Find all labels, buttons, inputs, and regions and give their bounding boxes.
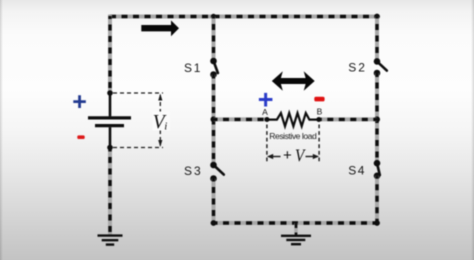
wire bottom rail bbox=[212, 221, 380, 225]
wire ground stem (middle) bbox=[294, 223, 297, 235]
+V left arrow bbox=[267, 154, 281, 159]
svg-text:+: + bbox=[283, 147, 292, 164]
svg-text:S: S bbox=[348, 164, 356, 178]
load measurement dashed bracket left bbox=[266, 125, 268, 162]
wire right bridge rail below S4 bbox=[375, 176, 379, 223]
wire battery bottom to ground bbox=[108, 148, 112, 236]
switch S1 bbox=[210, 58, 218, 78]
wire right bridge rail above S2 bbox=[375, 17, 379, 62]
node A bbox=[265, 117, 270, 122]
svg-text:+: + bbox=[258, 85, 274, 115]
svg-text:S: S bbox=[348, 61, 356, 75]
node battery bottom bbox=[107, 145, 113, 151]
svg-text:i: i bbox=[164, 121, 167, 133]
svg-text:3: 3 bbox=[194, 164, 201, 178]
Vi measurement dashed lines bbox=[113, 93, 163, 148]
node bottom-right corner bbox=[374, 220, 380, 226]
switch S2 bbox=[374, 58, 387, 76]
load minus label bbox=[314, 97, 324, 102]
+V right arrow bbox=[306, 154, 320, 159]
node top rail junction at S1 branch bbox=[211, 14, 216, 19]
ground (middle) bbox=[281, 236, 311, 244]
wire left bridge rail above S1 bbox=[212, 17, 216, 62]
wire left bridge rail below S3 bbox=[212, 179, 216, 224]
node right middle junction bbox=[374, 116, 380, 122]
svg-text:S: S bbox=[184, 164, 192, 178]
battery V1 bbox=[88, 93, 131, 148]
switch S4 bbox=[374, 160, 381, 179]
node battery top bbox=[107, 90, 113, 96]
node top-right corner bbox=[374, 14, 380, 20]
Vi label bbox=[153, 112, 171, 134]
switch S3 bbox=[210, 162, 224, 182]
double-headed arrow (load polarity swap) bbox=[272, 71, 315, 90]
svg-text:S: S bbox=[184, 61, 192, 75]
wire top rail bbox=[108, 15, 379, 19]
wire middle right (node B to junction) bbox=[319, 117, 377, 121]
svg-text:Resistive load: Resistive load bbox=[269, 131, 317, 141]
wire middle left (junction to node A) bbox=[214, 117, 268, 121]
battery minus label bbox=[77, 135, 84, 139]
load measurement dashed bracket right bbox=[318, 125, 320, 162]
svg-text:4: 4 bbox=[358, 164, 365, 178]
svg-text:B: B bbox=[317, 107, 323, 117]
wire left rail upper (battery top) bbox=[108, 15, 112, 93]
svg-text:2: 2 bbox=[358, 61, 365, 75]
svg-text:V: V bbox=[295, 145, 306, 165]
svg-text:1: 1 bbox=[194, 61, 201, 75]
node left middle junction bbox=[211, 116, 217, 122]
svg-text:+: + bbox=[72, 88, 87, 116]
resistor R (resistive load) bbox=[267, 113, 319, 126]
Vi arrowheads bbox=[158, 94, 162, 101]
node bottom-left corner bbox=[211, 220, 217, 226]
current arrow (top) bbox=[141, 20, 179, 36]
node B bbox=[316, 117, 321, 122]
wire right bridge rail S2 to S4 bbox=[375, 73, 379, 163]
ground (left / battery) bbox=[98, 236, 123, 245]
wire left bridge rail S1 to S3 bbox=[212, 75, 216, 166]
